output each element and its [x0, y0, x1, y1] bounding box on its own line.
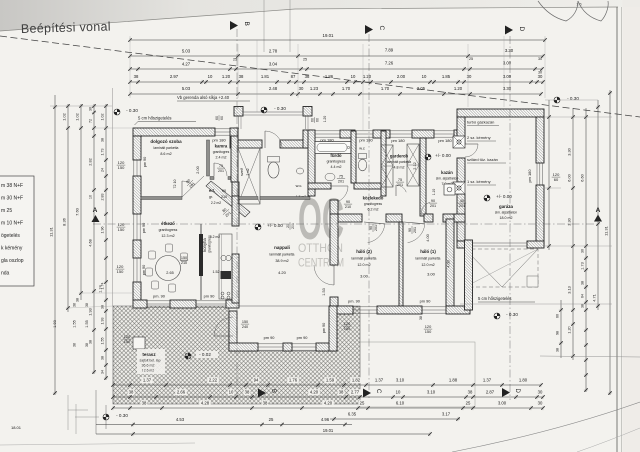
- svg-text:34: 34: [101, 370, 105, 374]
- svg-text:60: 60: [316, 118, 320, 122]
- svg-text:150: 150: [117, 269, 124, 274]
- wc toilet: [358, 159, 366, 171]
- svg-text:gr.: gr.: [209, 195, 213, 199]
- exterior wall: top-left (dolgozo+kamra): [133, 128, 215, 136]
- svg-text:2.00: 2.00: [397, 74, 406, 79]
- garage door to house arc: [465, 144, 478, 157]
- svg-text:38: 38: [101, 356, 105, 360]
- svg-text:12.0 m2: 12.0 m2: [421, 263, 434, 267]
- nappali bump left wall: [229, 311, 237, 351]
- boundary curves top right: [538, 1, 578, 21]
- svg-text:38: 38: [101, 138, 105, 142]
- exterior wall: top-right with windows: [340, 130, 355, 138]
- svg-text:1.93: 1.93: [101, 318, 105, 325]
- svg-text:laminált parketta: laminált parketta: [352, 257, 377, 261]
- svg-text:201: 201: [218, 169, 224, 173]
- svg-text:210: 210: [221, 195, 227, 199]
- svg-text:6.2 m2: 6.2 m2: [368, 208, 379, 212]
- svg-text:90: 90: [408, 228, 412, 232]
- legend box (cut off at left edge): [0, 176, 34, 286]
- svg-text:háló (2): háló (2): [356, 249, 372, 254]
- svg-text:5 cm hőszigetelés: 5 cm hőszigetelés: [138, 116, 172, 121]
- level marker garage: [484, 195, 490, 201]
- svg-text:12.0 m2: 12.0 m2: [357, 263, 370, 267]
- svg-text:A: A: [93, 207, 98, 214]
- dining table + chairs: [156, 256, 181, 281]
- svg-text:5.2 m2: 5.2 m2: [210, 235, 220, 239]
- svg-text:1.70: 1.70: [381, 86, 390, 91]
- svg-text:6.00: 6.00: [567, 173, 572, 181]
- svg-text:38: 38: [468, 390, 473, 395]
- svg-text:2.00: 2.00: [196, 166, 200, 173]
- svg-text:1.37: 1.37: [375, 378, 384, 383]
- svg-text:20: 20: [286, 224, 290, 228]
- svg-text:5 cm hőszigetelés: 5 cm hőszigetelés: [478, 296, 512, 301]
- level marker garage front: [494, 313, 500, 319]
- svg-text:- 0.30: - 0.30: [274, 106, 286, 111]
- svg-text:25: 25: [360, 401, 365, 406]
- svg-text:1.37: 1.37: [483, 378, 492, 383]
- svg-text:4.53: 4.53: [176, 417, 185, 422]
- svg-text:e.t.: e.t.: [209, 188, 215, 193]
- recess right wall vertical: [303, 130, 312, 148]
- beepitesi vonal dashed slanted line: [0, 36, 640, 117]
- svg-text:150: 150: [425, 329, 432, 334]
- svg-text:laminált parketta: laminált parketta: [270, 253, 295, 257]
- stove burners: [221, 292, 224, 295]
- svg-text:pm 90: pm 90: [142, 265, 146, 276]
- svg-text:4.20: 4.20: [310, 390, 319, 395]
- furdo/wc partition: [351, 131, 356, 183]
- svg-text:75: 75: [219, 164, 223, 168]
- svg-text:87: 87: [291, 74, 296, 79]
- svg-text:1 sz. kémény: 1 sz. kémény: [467, 179, 491, 184]
- svg-text:Beépítési vonal: Beépítési vonal: [21, 19, 111, 36]
- svg-text:3.04: 3.04: [269, 62, 278, 67]
- svg-text:3.30: 3.30: [503, 86, 512, 91]
- svg-text:30: 30: [581, 249, 585, 253]
- svg-text:38.9 m2: 38.9 m2: [275, 259, 288, 263]
- svg-text:4.96: 4.96: [321, 417, 330, 422]
- svg-text:7.26: 7.26: [385, 61, 394, 66]
- left dimension columns: [54, 95, 56, 395]
- svg-text:30: 30: [538, 401, 543, 406]
- svg-text:1.96: 1.96: [101, 227, 105, 234]
- furdo bathtub: [315, 142, 351, 154]
- konyha/nappali wall: [232, 182, 239, 196]
- level markers -0.30 row: [114, 109, 120, 115]
- svg-text:72: 72: [89, 119, 93, 123]
- svg-text:38: 38: [305, 74, 310, 79]
- svg-text:pm 90: pm 90: [322, 323, 326, 334]
- svg-text:1.02: 1.02: [75, 113, 80, 121]
- svg-text:fürdő: fürdő: [330, 153, 342, 158]
- svg-text:4.00: 4.00: [446, 259, 451, 267]
- svg-text:2.48: 2.48: [269, 86, 278, 91]
- svg-text:12.3 m2: 12.3 m2: [161, 234, 174, 238]
- svg-text:240: 240: [242, 325, 248, 329]
- svg-text:kazán: kazán: [441, 170, 453, 175]
- svg-text:4.71: 4.71: [592, 294, 597, 302]
- svg-text:25: 25: [469, 57, 473, 61]
- svg-text:38: 38: [239, 74, 244, 79]
- svg-text:pm 180: pm 180: [438, 138, 452, 143]
- svg-text:1.20: 1.20: [568, 326, 572, 333]
- svg-text:sim. aljzatbeton: sim. aljzatbeton: [436, 177, 458, 181]
- level marker nappali 0.00: [255, 224, 261, 230]
- svg-text:5.03: 5.03: [182, 86, 191, 91]
- svg-text:pm 90: pm 90: [204, 294, 216, 299]
- svg-text:pm 90: pm 90: [143, 157, 147, 168]
- svg-text:38: 38: [85, 343, 89, 347]
- svg-text:garderob: garderob: [390, 154, 409, 159]
- garage ramp dashed with X: [465, 249, 538, 287]
- nappali right wall: [330, 200, 338, 214]
- svg-text:+/- 0.00: +/- 0.00: [496, 194, 512, 199]
- svg-text:1.93: 1.93: [53, 320, 57, 327]
- svg-text:38: 38: [245, 390, 250, 395]
- svg-text:3.00: 3.00: [503, 61, 512, 66]
- svg-text:laminált parketta: laminált parketta: [154, 146, 179, 150]
- faint bottom line: [0, 443, 195, 445]
- right edge scanner strip: [623, 0, 640, 452]
- svg-text:38: 38: [419, 316, 423, 320]
- svg-text:kamra: kamra: [215, 144, 228, 149]
- svg-text:38: 38: [556, 348, 560, 352]
- svg-text:6.60: 6.60: [580, 173, 585, 181]
- svg-text:+/- 0.00: +/- 0.00: [267, 223, 283, 228]
- left horizontal connectors: [50, 105, 112, 107]
- svg-text:2.22: 2.22: [209, 378, 218, 383]
- svg-text:150: 150: [118, 227, 125, 232]
- svg-text:25: 25: [269, 417, 274, 422]
- svg-text:konyha: konyha: [202, 238, 207, 252]
- dolgozo bottom wall: [141, 197, 182, 200]
- garage door stubs bottom: [457, 241, 471, 248]
- svg-text:étkező: étkező: [161, 221, 175, 226]
- window kamra top: [215, 128, 235, 130]
- svg-text:1.70: 1.70: [342, 86, 351, 91]
- svg-text:1.86: 1.86: [325, 74, 334, 79]
- svg-text:3.17: 3.17: [442, 412, 451, 417]
- left exterior wall segments with windows: [133, 136, 141, 160]
- svg-text:w.c: w.c: [359, 146, 365, 151]
- svg-text:38: 38: [581, 281, 585, 285]
- svg-text:150: 150: [118, 165, 125, 170]
- garage top wall: [457, 109, 544, 117]
- svg-text:nda: nda: [1, 271, 10, 277]
- svg-text:garáza: garáza: [499, 204, 513, 209]
- svg-text:25: 25: [466, 401, 471, 406]
- terasz labels: [137, 349, 165, 374]
- entry door arc: [265, 131, 282, 148]
- svg-text:1.52: 1.52: [213, 270, 220, 274]
- svg-text:2.97: 2.97: [170, 74, 179, 79]
- svg-text:175: 175: [576, 3, 582, 7]
- porch edge lines: [243, 111, 303, 113]
- svg-text:150: 150: [124, 339, 131, 344]
- svg-text:3.00: 3.00: [427, 272, 436, 277]
- svg-text:1.80: 1.80: [519, 378, 528, 383]
- svg-text:150: 150: [181, 256, 187, 260]
- svg-text:30: 30: [89, 107, 93, 111]
- kamra left wall: [207, 140, 210, 176]
- svg-text:30: 30: [538, 74, 543, 79]
- washbasin: [325, 173, 335, 181]
- svg-text:2 sz. kémény: 2 sz. kémény: [467, 135, 491, 140]
- svg-text:10: 10: [396, 390, 401, 395]
- svg-text:60: 60: [220, 116, 224, 120]
- svg-text:72 10: 72 10: [173, 180, 177, 189]
- svg-text:11.31: 11.31: [604, 225, 609, 235]
- svg-text:30: 30: [538, 390, 543, 395]
- svg-text:k kémény: k kémény: [1, 246, 23, 252]
- svg-text:201: 201: [430, 204, 436, 208]
- svg-text:38: 38: [73, 343, 77, 347]
- svg-text:60: 60: [215, 116, 219, 120]
- svg-text:150: 150: [242, 320, 248, 324]
- svg-text:3.30: 3.30: [567, 147, 572, 155]
- svg-text:201: 201: [338, 180, 344, 184]
- furdo bottom wall with door: [308, 183, 331, 189]
- szelfogo x-box: [238, 148, 260, 204]
- svg-text:1.76: 1.76: [289, 378, 298, 383]
- svg-text:D: D: [514, 389, 520, 394]
- svg-text:közlekedő: közlekedő: [363, 196, 384, 201]
- svg-text:laminált parketta: laminált parketta: [387, 160, 411, 164]
- konyha partition + counter: [200, 224, 202, 300]
- 60/60 porch label: [215, 115, 224, 121]
- svg-text:30: 30: [467, 74, 472, 79]
- svg-text:19.01: 19.01: [323, 33, 335, 38]
- wc small room fixtures: [268, 162, 279, 178]
- terasz cross-hatched area: [113, 306, 360, 404]
- svg-text:szelf: szelf: [239, 167, 244, 176]
- svg-text:pm 180: pm 180: [391, 138, 405, 143]
- svg-text:pm. 90: pm. 90: [348, 299, 361, 304]
- svg-text:m 38 N+F: m 38 N+F: [1, 183, 23, 189]
- svg-text:4.68: 4.68: [88, 239, 93, 247]
- svg-text:38: 38: [76, 298, 80, 302]
- svg-text:150: 150: [344, 326, 351, 331]
- level marker bottom-left: [103, 414, 109, 420]
- svg-text:2.82: 2.82: [88, 158, 93, 166]
- svg-text:10: 10: [422, 74, 427, 79]
- right page border: [616, 7, 618, 452]
- svg-text:t 2.6 m2: t 2.6 m2: [142, 369, 154, 373]
- svg-text:3.00: 3.00: [498, 401, 507, 406]
- nappali bump right wall: [329, 306, 337, 351]
- svg-text:pm 180: pm 180: [359, 138, 373, 143]
- szelfogo/wc bottom wall: [239, 197, 258, 200]
- right dimension columns: [548, 100, 550, 250]
- svg-text:1.02: 1.02: [101, 114, 105, 121]
- svg-text:1.10: 1.10: [432, 189, 436, 196]
- svg-text:1.93: 1.93: [88, 308, 93, 316]
- bottom section markers: [258, 389, 266, 398]
- svg-text:90: 90: [222, 189, 226, 193]
- svg-text:3.00: 3.00: [360, 274, 369, 279]
- svg-text:1.20: 1.20: [363, 74, 372, 79]
- svg-text:sajtolt bet. lap: sajtolt bet. lap: [140, 359, 161, 363]
- svg-text:2.12: 2.12: [413, 162, 417, 169]
- svg-text:1.20: 1.20: [323, 116, 327, 123]
- bottom right curve: [452, 402, 640, 452]
- svg-text:- 0.30: - 0.30: [126, 108, 138, 113]
- svg-text:18.01: 18.01: [11, 425, 22, 430]
- svg-text:granitogress: granitogress: [327, 160, 346, 164]
- svg-text:3.10: 3.10: [396, 378, 405, 383]
- svg-text:38: 38: [134, 74, 139, 79]
- svg-text:2.66: 2.66: [177, 390, 186, 395]
- bottom dimension chains: [113, 384, 541, 386]
- svg-text:11.31: 11.31: [49, 226, 54, 236]
- svg-text:1.20: 1.20: [454, 86, 463, 91]
- svg-text:38: 38: [129, 390, 134, 395]
- svg-text:4.28: 4.28: [201, 401, 210, 406]
- svg-text:5.03: 5.03: [182, 49, 191, 54]
- svg-text:90: 90: [431, 199, 435, 203]
- svg-text:201: 201: [374, 225, 378, 231]
- svg-text:25: 25: [303, 58, 307, 62]
- svg-text:38: 38: [101, 305, 105, 309]
- garderob/kazan wall: [420, 138, 426, 216]
- svg-text:turbó gázkazán: turbó gázkazán: [467, 120, 494, 125]
- top dimension chain: [130, 39, 545, 41]
- svg-text:210: 210: [345, 205, 351, 209]
- svg-text:30: 30: [538, 57, 542, 61]
- witness lines top: [129, 36, 131, 98]
- svg-text:40: 40: [460, 199, 464, 203]
- svg-text:granitogres: granitogres: [213, 150, 230, 154]
- svg-text:1.53: 1.53: [322, 288, 326, 295]
- svg-text:szilárd tüz. kazán: szilárd tüz. kazán: [467, 157, 498, 162]
- svg-text:1.88: 1.88: [449, 378, 458, 383]
- section line C: [368, 34, 370, 398]
- faint patio rectangle right of terrace: [360, 342, 475, 407]
- halo partition: [399, 222, 403, 306]
- sink bowls: [221, 255, 226, 260]
- svg-text:38: 38: [85, 303, 89, 307]
- level -0.02 in terrace: [185, 353, 191, 359]
- kazan room labels: [425, 154, 431, 160]
- svg-text:terasz: terasz: [142, 352, 156, 357]
- svg-text:38: 38: [73, 303, 77, 307]
- garderob wardrobes: [381, 145, 393, 187]
- svg-text:Vb gerenda alsó síkja +2.40: Vb gerenda alsó síkja +2.40: [177, 95, 230, 100]
- svg-text:dolgozó szoba: dolgozó szoba: [150, 139, 182, 144]
- svg-text:1.55: 1.55: [85, 320, 89, 327]
- svg-text:pm 180: pm 180: [527, 169, 532, 183]
- svg-text:granitogress: granitogress: [364, 202, 382, 206]
- nappali bump bottom wall with windows: [229, 343, 258, 351]
- szelfogo right / furdo left wall: [308, 130, 315, 196]
- svg-text:60: 60: [556, 314, 560, 318]
- svg-text:18.0 m2: 18.0 m2: [500, 216, 513, 220]
- svg-text:sim. aljzatbeton: sim. aljzatbeton: [495, 211, 517, 215]
- wc right / garderob left wall: [381, 131, 386, 196]
- svg-text:10: 10: [229, 390, 234, 395]
- svg-text:3.13: 3.13: [567, 286, 572, 294]
- svg-text:8.6 m2: 8.6 m2: [160, 152, 171, 156]
- svg-text:98: 98: [556, 331, 560, 335]
- garage left wall segments: [457, 117, 465, 144]
- svg-text:nappali: nappali: [274, 245, 290, 250]
- svg-text:3.00: 3.00: [503, 74, 512, 79]
- svg-text:2.87: 2.87: [486, 390, 495, 395]
- svg-text:10: 10: [89, 195, 93, 199]
- svg-text:C: C: [375, 389, 381, 394]
- svg-text:6.10: 6.10: [396, 401, 405, 406]
- diagonal wall etkezo/e.t.: [206, 181, 250, 217]
- section line B: [236, 29, 238, 395]
- svg-text:1.55: 1.55: [101, 338, 105, 345]
- svg-text:pm 180: pm 180: [212, 138, 226, 143]
- svg-text:pm. 90: pm. 90: [153, 294, 166, 299]
- svg-text:38: 38: [263, 401, 268, 406]
- svg-text:2.4 m2: 2.4 m2: [216, 156, 227, 160]
- svg-text:- 0.30: - 0.30: [567, 96, 579, 101]
- svg-text:pm 90: pm 90: [297, 335, 309, 340]
- kamra right wall: [231, 136, 238, 182]
- small pillar at ramp end: [527, 276, 538, 287]
- svg-text:64: 64: [581, 294, 585, 298]
- svg-text:36.6 m2: 36.6 m2: [142, 364, 155, 368]
- svg-text:1.85: 1.85: [442, 74, 451, 79]
- svg-text:1.73: 1.73: [101, 149, 105, 156]
- recess left wall vertical: [230, 128, 238, 148]
- svg-text:19.01: 19.01: [323, 428, 334, 433]
- bottom wall halos with windows: [337, 306, 353, 314]
- svg-text:2 m2: 2 m2: [246, 168, 250, 175]
- terrace door arc from nappali: [214, 317, 233, 336]
- svg-text:1.37: 1.37: [143, 378, 152, 383]
- svg-text:8.36: 8.36: [62, 217, 67, 226]
- svg-text:1.20: 1.20: [222, 74, 231, 79]
- kozlekedo bottom wall with halo doors: [338, 214, 362, 222]
- svg-text:7.89: 7.89: [385, 48, 394, 53]
- svg-text:háló (1): háló (1): [420, 249, 436, 254]
- svg-text:2.78: 2.78: [269, 49, 278, 54]
- svg-text:2.05: 2.05: [417, 86, 426, 91]
- svg-text:m 10 N+F: m 10 N+F: [1, 221, 23, 227]
- svg-text:pm 90: pm 90: [264, 335, 276, 340]
- svg-text:4.8 m2: 4.8 m2: [394, 166, 405, 170]
- svg-text:B: B: [270, 389, 276, 393]
- section line D: [509, 36, 511, 400]
- svg-text:75: 75: [398, 178, 402, 182]
- svg-text:24: 24: [101, 168, 105, 172]
- svg-text:201: 201: [413, 227, 417, 233]
- svg-text:60: 60: [310, 118, 314, 122]
- svg-text:gla oszlop: gla oszlop: [1, 258, 24, 264]
- svg-text:m 30 N+F: m 30 N+F: [1, 196, 23, 202]
- svg-text:C: C: [378, 26, 385, 31]
- svg-text:201: 201: [459, 204, 465, 208]
- svg-text:- 0.02: - 0.02: [199, 352, 211, 357]
- diagonal door opening dolgozo/etkezo: [182, 176, 204, 197]
- svg-text:1.23: 1.23: [310, 86, 319, 91]
- section line A horizontal: [93, 223, 596, 225]
- svg-text:38: 38: [581, 304, 585, 308]
- svg-text:1.59: 1.59: [326, 378, 335, 383]
- svg-text:1.73: 1.73: [581, 262, 585, 269]
- svg-text:2.83: 2.83: [101, 194, 105, 201]
- halo1 right wall: [446, 219, 454, 306]
- svg-text:25: 25: [233, 58, 237, 62]
- svg-text:2.65: 2.65: [166, 271, 173, 275]
- svg-text:38: 38: [142, 401, 147, 406]
